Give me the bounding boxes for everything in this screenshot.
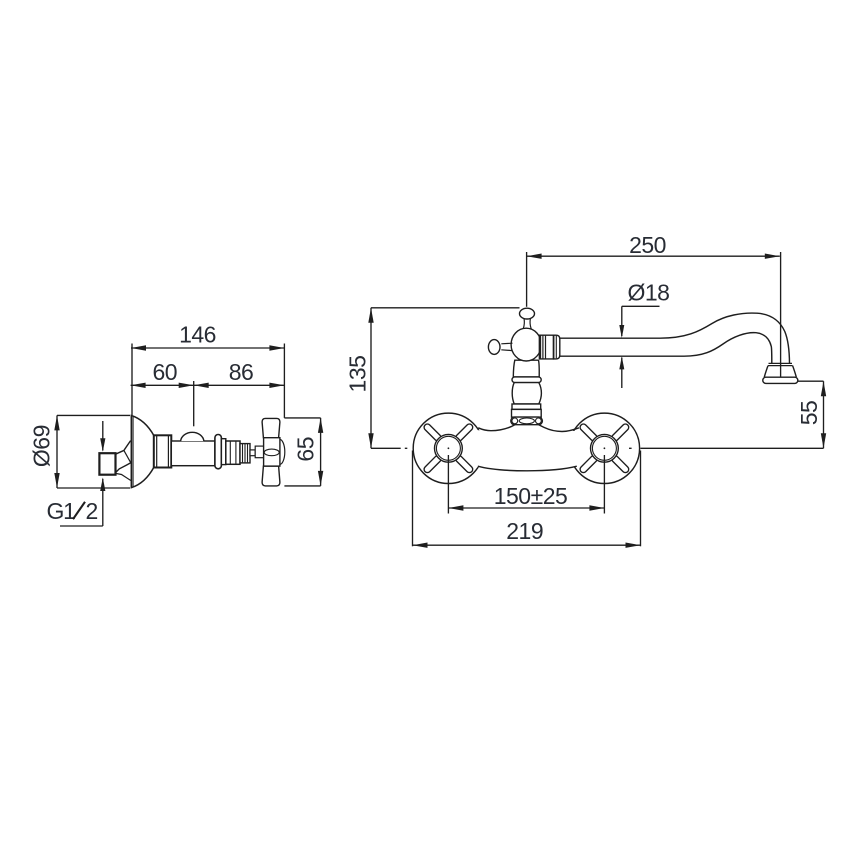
square inlet G1/2 thread — [99, 453, 115, 475]
collar ring — [215, 435, 222, 469]
ext lines below handle centers — [447, 455, 449, 514]
small lever ball — [488, 340, 500, 355]
body top edge right — [537, 423, 580, 431]
cross handle side view: top blade — [262, 418, 280, 437]
diverter ball joint — [511, 328, 541, 361]
small collar — [221, 439, 225, 465]
mixer body — [452, 423, 601, 471]
collar ring 1 — [512, 377, 541, 383]
column segment A (cup) — [513, 360, 539, 377]
dim diameter 18 — [619, 279, 669, 388]
svg-text:2: 2 — [86, 498, 99, 524]
ext line through spout outlet — [780, 252, 782, 377]
svg-text:135: 135 — [345, 356, 371, 393]
ribbed spout joint — [540, 335, 560, 359]
centerline — [629, 447, 824, 449]
dim 55 — [796, 381, 826, 448]
dim 250 — [527, 232, 780, 307]
body top edge left — [478, 423, 517, 430]
valve body cylinder — [171, 441, 215, 466]
hub — [264, 438, 280, 466]
spout outlet bell — [763, 363, 798, 383]
column barrel — [512, 383, 541, 404]
handle hub right — [591, 434, 619, 462]
spout bottom line — [560, 333, 772, 364]
wall flange side view — [131, 416, 154, 488]
spout top line — [560, 313, 790, 363]
base band 1 — [512, 404, 541, 409]
svg-text:65: 65 — [293, 437, 319, 462]
knob neck — [523, 319, 531, 329]
bead ring — [511, 417, 543, 425]
svg-text:146: 146 — [179, 322, 216, 348]
cross handle blades left — [423, 423, 474, 474]
stem — [250, 450, 255, 456]
handle hub left — [435, 434, 463, 462]
dim 150 plus-minus 25 — [448, 483, 604, 511]
label G1/2 leader — [47, 421, 106, 526]
dim 65 — [284, 418, 323, 486]
dim 219 — [413, 451, 641, 548]
hub grip ellipse — [264, 449, 279, 456]
svg-text:86: 86 — [229, 359, 254, 385]
dim 146 top — [131, 322, 284, 418]
dome bump — [181, 432, 204, 441]
svg-text:Ø69: Ø69 — [29, 425, 55, 467]
top knob ball — [520, 308, 535, 319]
svg-text:60: 60 — [153, 359, 178, 385]
body bottom edge — [478, 466, 577, 471]
svg-text:Ø18: Ø18 — [628, 279, 670, 305]
svg-text:G1: G1 — [47, 498, 76, 524]
ribbed rings — [240, 444, 250, 463]
small lever stem — [501, 343, 512, 350]
base band 2 — [512, 409, 542, 417]
hub end dome — [274, 439, 284, 464]
svg-text:55: 55 — [796, 401, 822, 426]
bottom blade — [262, 466, 280, 486]
escutcheon circle right — [569, 413, 639, 483]
svg-text:250: 250 — [629, 232, 666, 258]
bonnet hex — [226, 441, 240, 464]
svg-text:150±25: 150±25 — [494, 483, 568, 509]
hex nut — [154, 435, 172, 467]
cross handle blades right — [579, 423, 630, 474]
dim diameter 69 — [29, 415, 131, 488]
dim 60 and 86 — [131, 359, 285, 427]
funnel pipe to flange — [116, 441, 131, 481]
svg-text:219: 219 — [506, 518, 543, 544]
dim 135 — [345, 308, 520, 449]
escutcheon circle left — [413, 413, 483, 483]
